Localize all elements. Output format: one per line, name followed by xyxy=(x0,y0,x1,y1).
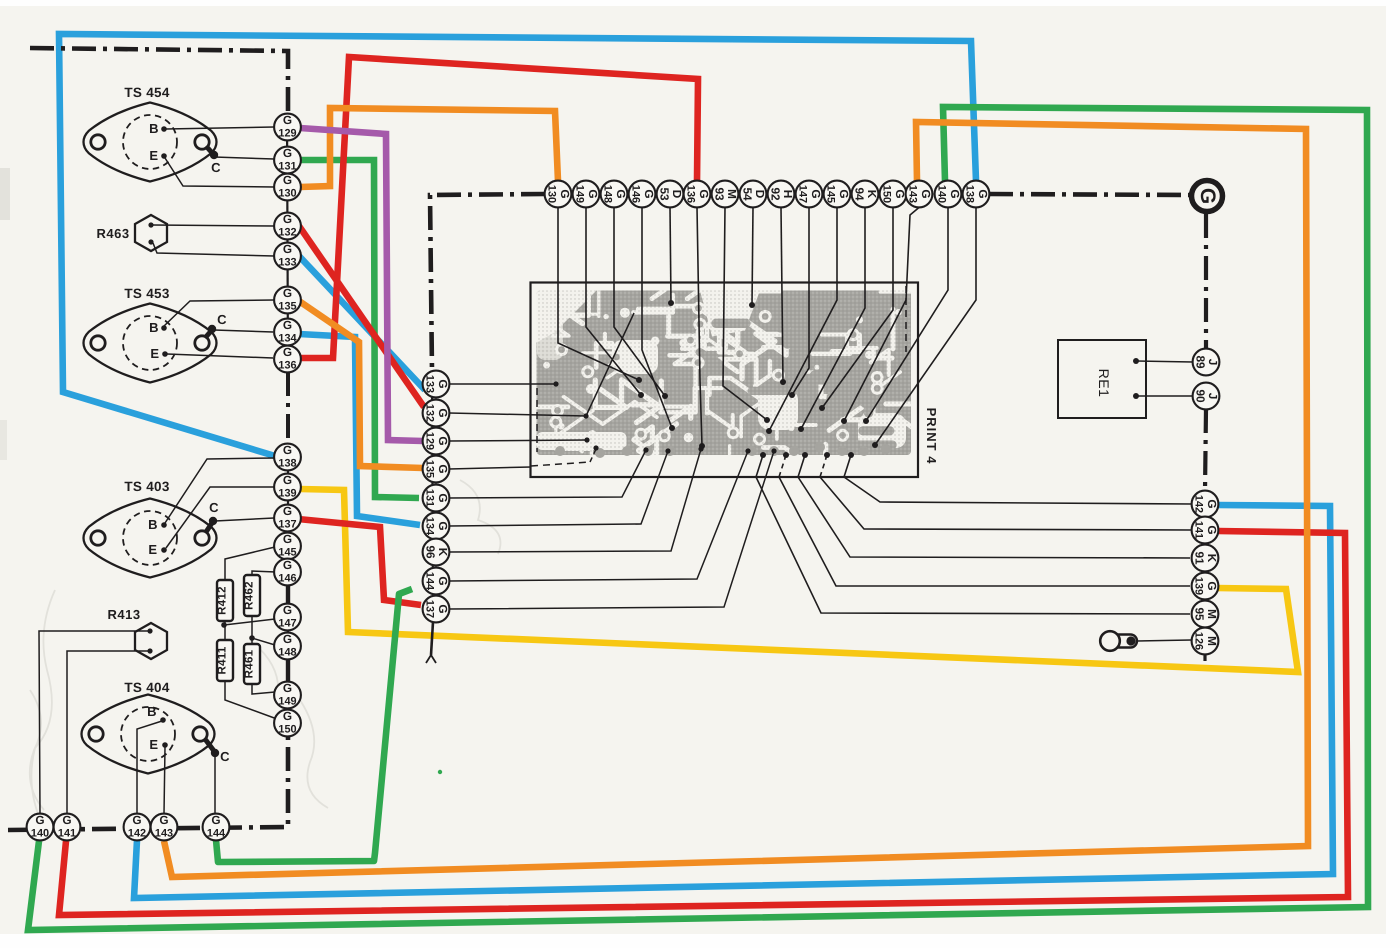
svg-text:G: G xyxy=(837,189,851,198)
svg-text:140: 140 xyxy=(935,185,947,203)
svg-text:B: B xyxy=(147,704,157,719)
svg-text:135: 135 xyxy=(423,460,435,478)
svg-text:146: 146 xyxy=(629,185,641,203)
svg-text:G: G xyxy=(436,408,450,417)
svg-text:149: 149 xyxy=(278,696,296,708)
svg-text:130: 130 xyxy=(278,188,296,200)
svg-text:B: B xyxy=(149,320,159,335)
svg-text:129: 129 xyxy=(278,128,296,140)
svg-text:G: G xyxy=(283,632,292,646)
svg-text:TS 404: TS 404 xyxy=(124,680,170,695)
svg-text:143: 143 xyxy=(906,185,918,203)
svg-text:89: 89 xyxy=(1193,355,1207,369)
svg-text:TS 403: TS 403 xyxy=(124,479,170,494)
svg-text:G: G xyxy=(1205,499,1219,508)
svg-text:132: 132 xyxy=(423,404,435,422)
svg-text:G: G xyxy=(283,345,292,359)
svg-text:R462: R462 xyxy=(244,581,256,610)
svg-text:148: 148 xyxy=(278,647,296,659)
svg-text:54: 54 xyxy=(740,187,754,201)
svg-text:136: 136 xyxy=(278,360,296,372)
svg-text:G: G xyxy=(132,813,141,827)
svg-text:C: C xyxy=(211,160,221,175)
svg-text:G: G xyxy=(436,604,450,613)
svg-text:91: 91 xyxy=(1192,551,1206,565)
svg-text:G: G xyxy=(283,532,292,546)
svg-text:138: 138 xyxy=(963,185,975,203)
svg-text:150: 150 xyxy=(278,724,296,736)
svg-text:G: G xyxy=(436,576,450,585)
svg-text:G: G xyxy=(283,443,292,457)
svg-text:94: 94 xyxy=(852,187,866,201)
svg-text:133: 133 xyxy=(278,257,296,269)
svg-text:130: 130 xyxy=(545,185,557,203)
svg-text:53: 53 xyxy=(657,187,671,201)
svg-text:131: 131 xyxy=(423,489,435,507)
svg-text:G: G xyxy=(586,189,600,198)
svg-text:90: 90 xyxy=(1193,389,1207,403)
svg-text:G: G xyxy=(614,189,628,198)
svg-text:G: G xyxy=(283,603,292,617)
svg-text:G: G xyxy=(283,113,292,127)
svg-text:G: G xyxy=(283,318,292,332)
svg-text:147: 147 xyxy=(796,185,808,203)
svg-text:G: G xyxy=(1205,581,1219,590)
svg-text:93: 93 xyxy=(712,187,726,201)
svg-text:134: 134 xyxy=(278,333,296,345)
svg-text:M: M xyxy=(1205,636,1219,646)
svg-text:RE1: RE1 xyxy=(1096,369,1112,398)
svg-text:G: G xyxy=(697,189,711,198)
svg-text:G: G xyxy=(283,558,292,572)
svg-text:135: 135 xyxy=(278,301,296,313)
svg-text:G: G xyxy=(436,493,450,502)
svg-text:R463: R463 xyxy=(96,226,129,241)
svg-text:131: 131 xyxy=(278,161,296,173)
svg-text:140: 140 xyxy=(31,828,49,840)
svg-text:TS 454: TS 454 xyxy=(124,85,170,100)
svg-text:G: G xyxy=(62,813,71,827)
svg-text:R411: R411 xyxy=(217,646,229,674)
svg-text:137: 137 xyxy=(423,600,435,618)
svg-text:G: G xyxy=(436,436,450,445)
svg-text:G: G xyxy=(283,242,292,256)
svg-text:R412: R412 xyxy=(217,586,229,615)
svg-text:G: G xyxy=(283,681,292,695)
svg-text:145: 145 xyxy=(278,547,296,559)
svg-text:139: 139 xyxy=(278,488,296,500)
svg-text:139: 139 xyxy=(1192,577,1204,595)
svg-text:138: 138 xyxy=(278,458,296,470)
svg-text:B: B xyxy=(148,517,158,532)
svg-text:G: G xyxy=(283,473,292,487)
svg-text:126: 126 xyxy=(1192,632,1204,650)
svg-text:E: E xyxy=(149,148,158,163)
svg-text:96: 96 xyxy=(423,545,437,559)
svg-text:B: B xyxy=(149,121,159,136)
svg-text:G: G xyxy=(436,464,450,473)
svg-text:G: G xyxy=(283,212,292,226)
svg-text:G: G xyxy=(283,286,292,300)
svg-text:C: C xyxy=(209,500,219,515)
svg-text:C: C xyxy=(220,749,230,764)
svg-text:129: 129 xyxy=(423,432,435,450)
svg-text:G: G xyxy=(948,189,962,198)
svg-text:G: G xyxy=(283,709,292,723)
svg-text:G: G xyxy=(283,146,292,160)
svg-text:C: C xyxy=(217,312,227,327)
svg-text:144: 144 xyxy=(423,572,435,590)
svg-text:G: G xyxy=(436,379,450,388)
svg-text:R461: R461 xyxy=(244,649,256,678)
svg-text:142: 142 xyxy=(1192,495,1204,513)
svg-text:G: G xyxy=(283,173,292,187)
svg-text:G: G xyxy=(35,813,44,827)
svg-text:136: 136 xyxy=(684,185,696,203)
svg-text:E: E xyxy=(149,737,158,752)
svg-text:R413: R413 xyxy=(107,607,140,622)
svg-text:G: G xyxy=(1205,525,1219,534)
svg-text:G: G xyxy=(436,521,450,530)
svg-text:PRINT 4: PRINT 4 xyxy=(924,408,939,465)
svg-text:G: G xyxy=(809,189,823,198)
svg-text:147: 147 xyxy=(278,618,296,630)
svg-text:142: 142 xyxy=(128,828,146,840)
svg-text:144: 144 xyxy=(207,828,225,840)
svg-text:G: G xyxy=(558,189,572,198)
svg-text:95: 95 xyxy=(1192,607,1206,621)
svg-text:137: 137 xyxy=(278,519,296,531)
svg-text:G: G xyxy=(1196,188,1219,204)
svg-text:145: 145 xyxy=(824,185,836,203)
svg-text:149: 149 xyxy=(573,185,585,203)
svg-text:92: 92 xyxy=(768,187,782,201)
svg-text:134: 134 xyxy=(423,517,435,535)
svg-text:141: 141 xyxy=(1192,521,1204,539)
svg-text:132: 132 xyxy=(278,227,296,239)
svg-text:143: 143 xyxy=(155,828,173,840)
svg-text:150: 150 xyxy=(880,185,892,203)
svg-text:G: G xyxy=(159,813,168,827)
svg-text:G: G xyxy=(976,189,990,198)
svg-text:TS 453: TS 453 xyxy=(124,286,170,301)
svg-text:141: 141 xyxy=(58,828,76,840)
svg-text:E: E xyxy=(150,346,159,361)
svg-text:G: G xyxy=(211,813,220,827)
svg-text:148: 148 xyxy=(601,185,613,203)
svg-text:G: G xyxy=(642,189,656,198)
svg-text:133: 133 xyxy=(423,375,435,393)
svg-text:G: G xyxy=(919,189,933,198)
svg-text:E: E xyxy=(148,542,157,557)
svg-text:G: G xyxy=(283,504,292,518)
svg-text:146: 146 xyxy=(278,573,296,585)
